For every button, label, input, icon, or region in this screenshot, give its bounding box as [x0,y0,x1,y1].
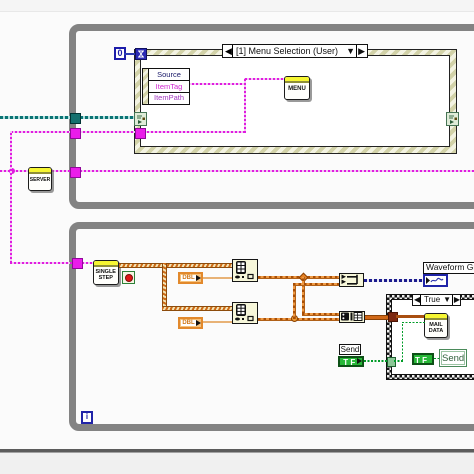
VI node 1 [232,259,258,282]
wire: magenta ItemTag y=84 [188,83,245,85]
wire: magenta vertical x=245 [244,78,246,133]
wire: teal refnum into loop1 [0,116,136,119]
diamond junction [299,273,309,283]
brown wire inside case [396,315,424,318]
wire: magenta to MENU y=78.5 [245,78,285,80]
tunnel: magenta loop2 border [72,258,83,269]
bundle node 1 [339,273,364,287]
green wire tunnel to riser [394,360,404,362]
event timeout terminal [135,48,147,60]
VI node 2 [232,302,258,324]
bottom window frame [0,449,474,452]
wire: magenta W2 y=171 full width [0,170,474,172]
tunnel: magenta event border [135,128,146,139]
case structure border [386,294,474,380]
constant 0 [114,47,126,60]
bundle node 2 [339,311,365,323]
SINGLE STEP subVI [93,260,119,285]
event structure border [134,49,457,154]
green vertical riser x=402.5 [402,322,404,361]
braided wire SINGLE STEP out [119,263,233,268]
Send label (control) [339,344,361,355]
tunnel: green dynamic event right [446,112,459,126]
tunnel: magenta loop1 y171 [70,167,81,178]
DBL constant 2 [178,317,203,329]
green dotted TF to Send [434,358,440,360]
braided lower y=308 [162,306,233,311]
green tunnel on case border [387,357,396,367]
orange vertical x=303 [302,277,305,314]
wire: magenta vertical x=11 [10,131,12,263]
orange wire bundle2 to tunnel [365,315,389,320]
i iteration terminal [81,411,93,424]
orange vertical x=294 [293,283,296,319]
tunnel: teal on loop1 left border [70,113,81,124]
braided vertical x=164 [162,263,167,308]
junction square x=294 [291,315,298,322]
maroon tunnel [388,312,398,322]
waveform graph label [423,262,474,274]
orange y=313.5 into bundle2 top [302,313,339,316]
event selector label [222,44,368,58]
orange wire node2 out y=318.5 [258,318,340,321]
TF constant inside case [412,353,434,366]
wire: magenta W1 y=132 [11,131,245,133]
tunnel: magenta loop1 border [70,128,81,139]
tunnel: green dynamic event left [134,112,147,126]
wire DBL2 out [203,321,232,323]
top window strip [0,0,474,12]
SERVER subVI [28,167,52,191]
wire DBL1 out [203,277,232,279]
wire: magenta y=262.5 into loop2 [10,262,94,264]
event data node [142,68,190,105]
orange wire node1 out y=277 [258,276,340,279]
waveform graph terminal [423,274,448,287]
stop button [122,271,135,284]
blue dashed wire to waveform graph [364,279,423,282]
green wire TF to tunnel y=361 [364,360,387,362]
MENU subVI [284,76,310,100]
green wire y=322.5 to MAIL DATA [402,322,425,324]
wire: blue 0 to timeout [124,53,135,55]
case selector True [412,294,461,306]
orange y=283.5 into bundle1 bottom [293,283,339,286]
while loop 1 (top) [69,24,474,209]
junction dot x=11 y=171 [9,168,15,174]
while loop 2 (bottom) [69,222,474,431]
Send indicator [439,349,467,367]
TF control [338,356,364,367]
MAIL DATA subVI [424,313,448,338]
DBL constant 1 [178,272,203,284]
